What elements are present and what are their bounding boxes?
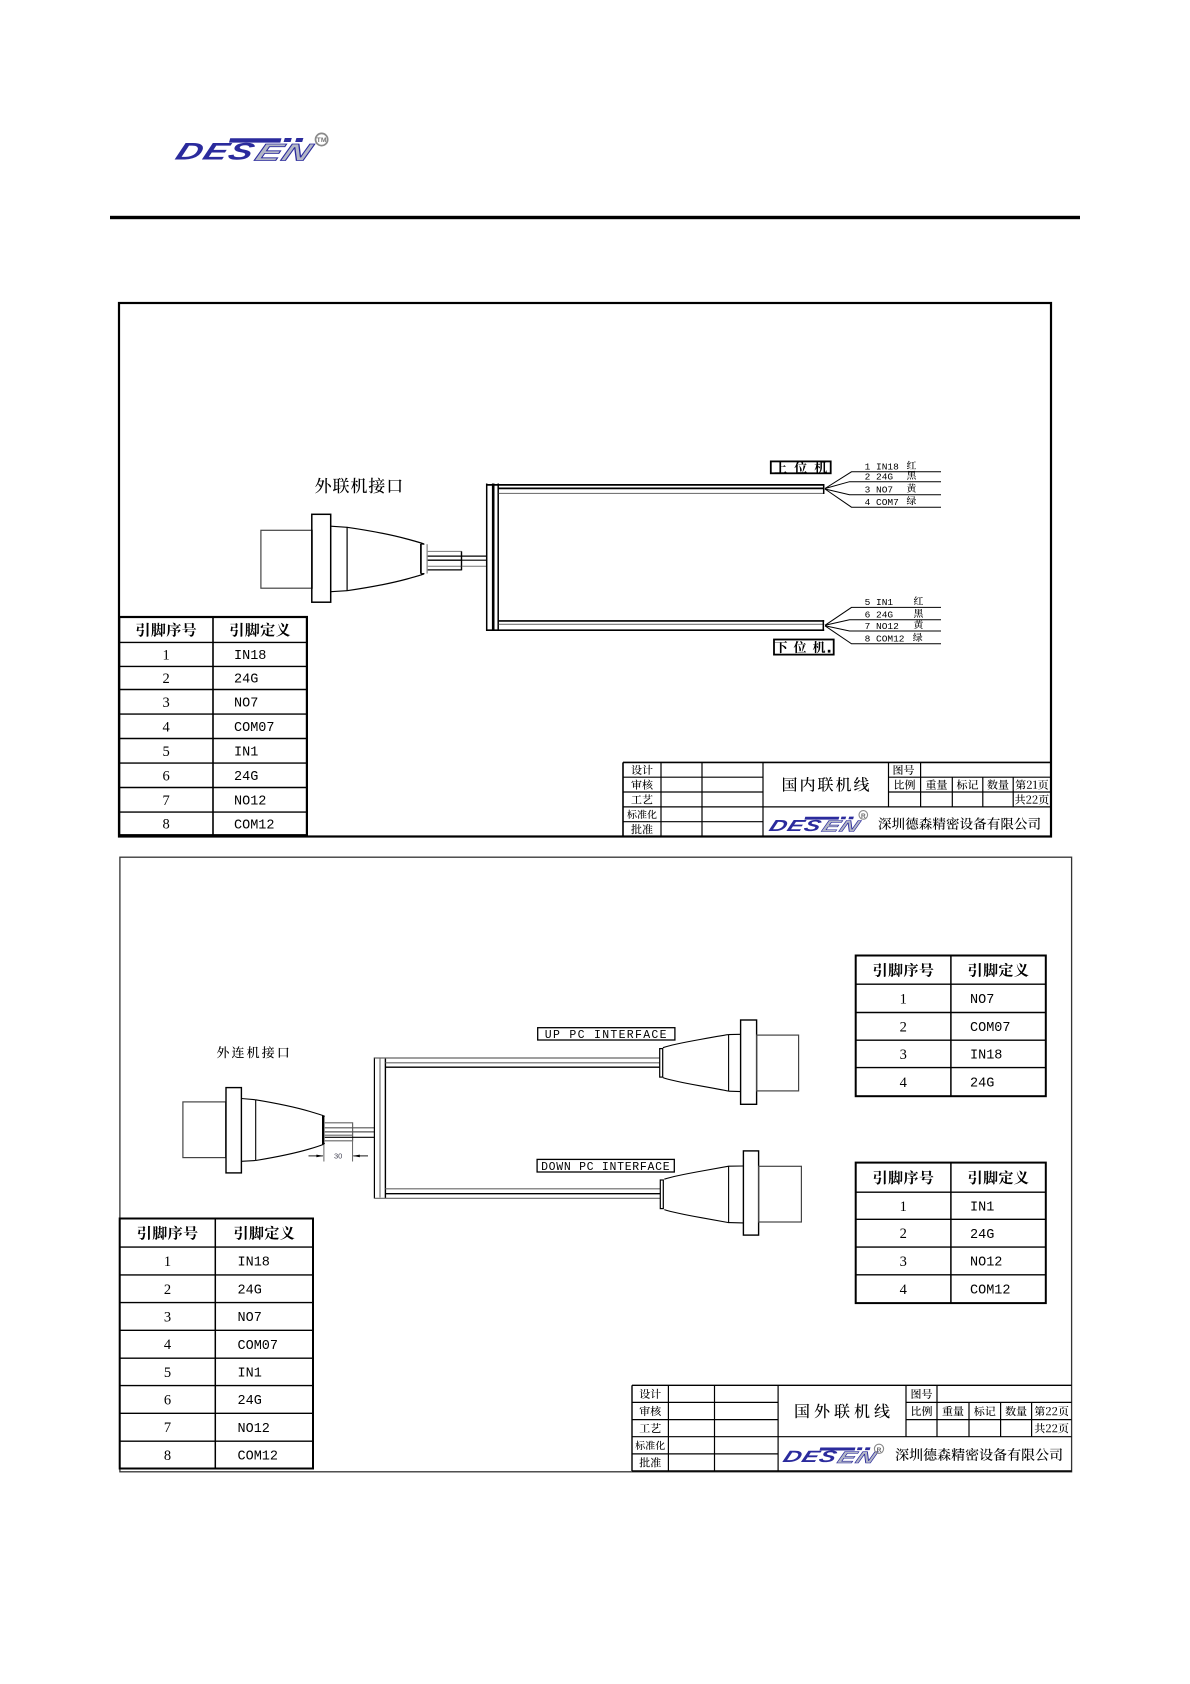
company name 深圳德森精密设备有限公司 — [878, 817, 891, 829]
drawing sheet frame 1 (国内联机线) — [119, 303, 1051, 837]
svg-text:24G: 24G — [234, 770, 258, 785]
connector P1 barrel — [261, 530, 312, 588]
svg-text:5 IN1: 5 IN1 — [865, 597, 894, 608]
fan-out wire 5 IN1 — [825, 607, 941, 625]
wires from P2 to bundle — [325, 1127, 374, 1129]
connector UP barrel — [757, 1035, 799, 1091]
fan-out wire 8 COM12 — [825, 626, 941, 644]
svg-text:3: 3 — [162, 695, 169, 711]
pin definition table frame 2 (8 pins) — [120, 1219, 313, 1469]
svg-text:30: 30 — [334, 1152, 342, 1161]
svg-text:NO12: NO12 — [970, 1256, 1002, 1271]
svg-text:24G: 24G — [238, 1284, 262, 1299]
DESEN company logo (header) — [172, 138, 318, 166]
connector P2 flange — [226, 1088, 241, 1173]
svg-text:7: 7 — [162, 793, 169, 809]
connector P2 cable exit cap — [322, 1116, 324, 1145]
svg-text:COM07: COM07 — [238, 1339, 279, 1354]
connector P1 strain-relief cone — [347, 527, 424, 544]
title block fields — [912, 1389, 921, 1399]
svg-text:1: 1 — [162, 647, 169, 663]
upper cable run — [486, 484, 824, 486]
pin table headers — [873, 963, 886, 977]
fan-out wire 2 24G — [825, 482, 941, 489]
connector UP cap — [660, 1049, 663, 1078]
svg-text:5: 5 — [162, 744, 169, 760]
svg-text:IN1: IN1 — [970, 1201, 994, 1216]
svg-text:NO12: NO12 — [238, 1422, 270, 1437]
svg-text:COM12: COM12 — [970, 1284, 1011, 1299]
svg-text:R: R — [861, 813, 866, 820]
connector P1 cable exit cap — [420, 544, 422, 574]
svg-text:3: 3 — [164, 1309, 171, 1325]
DESEN logo (title block 1) — [767, 817, 865, 836]
fan-out wire 7 NO12 — [825, 626, 941, 631]
cable bundle junction bar 2 — [373, 1058, 375, 1199]
svg-text:4: 4 — [900, 1075, 908, 1091]
label 外联机接口 — [315, 478, 331, 494]
dimension 30 — [323, 1145, 325, 1162]
svg-text:COM12: COM12 — [234, 818, 275, 833]
svg-text:6: 6 — [164, 1392, 171, 1408]
connector P1 body — [331, 526, 347, 527]
svg-text:5: 5 — [164, 1365, 171, 1381]
pin definition table (8 pins) — [119, 617, 307, 835]
svg-text:24G: 24G — [970, 1228, 994, 1243]
wires from P1 to cable bundle — [462, 555, 487, 557]
TM mark (header) — [316, 133, 328, 145]
fan-out wire 4 COM7 — [825, 489, 941, 507]
connector P2 barrel — [183, 1102, 226, 1158]
box label 上位机 — [771, 461, 831, 473]
svg-text:COM07: COM07 — [234, 721, 275, 736]
connector DOWN cone — [664, 1166, 728, 1179]
lower cable run 2 — [385, 1188, 660, 1190]
R mark (title block 2) — [874, 1444, 883, 1453]
fan-out wire 6 24G — [825, 620, 941, 626]
svg-text:NO7: NO7 — [234, 697, 258, 712]
svg-text:4: 4 — [900, 1282, 908, 1298]
pin table headers — [873, 1171, 886, 1185]
exposed wires at P2 — [325, 1122, 353, 1124]
drawing sheet frame 2 (国外联机线) — [120, 857, 1072, 1472]
svg-text:2: 2 — [162, 671, 169, 687]
svg-text:IN18: IN18 — [238, 1256, 270, 1271]
svg-text:2: 2 — [164, 1282, 171, 1298]
svg-text:NO7: NO7 — [970, 993, 994, 1008]
svg-text:NO7: NO7 — [238, 1311, 262, 1326]
svg-text:24G: 24G — [238, 1394, 262, 1409]
connector DOWN cap — [660, 1180, 663, 1209]
svg-text:UP PC INTERFACE: UP PC INTERFACE — [545, 1029, 668, 1042]
svg-text:2: 2 — [900, 1226, 907, 1242]
title block labels — [640, 1389, 650, 1399]
svg-text:IN1: IN1 — [238, 1367, 262, 1382]
svg-text:IN1: IN1 — [234, 746, 258, 761]
lower cable run — [498, 620, 824, 622]
title block labels — [631, 765, 641, 775]
title block (frame 1) — [623, 761, 1051, 763]
title block (frame 2) — [632, 1384, 1072, 1386]
exposed wire bundle at P1 — [428, 550, 462, 552]
pin table UP PC (4 pins) — [856, 956, 1046, 1097]
svg-text:8: 8 — [162, 817, 169, 833]
horizontal rule under header — [110, 216, 1080, 219]
box label UP PC INTERFACE — [538, 1028, 675, 1040]
connector UP cone — [663, 1035, 729, 1048]
connector P2 strain-relief cone — [256, 1100, 325, 1116]
svg-text:3 NO7: 3 NO7 — [865, 485, 894, 496]
svg-text:24G: 24G — [234, 673, 258, 688]
pin table headers — [136, 623, 149, 637]
svg-text:IN18: IN18 — [234, 649, 266, 664]
svg-text:7: 7 — [164, 1420, 171, 1436]
pin table headers — [138, 1226, 151, 1240]
connector P2 body — [241, 1099, 255, 1100]
fan-out wire 3 NO7 — [825, 489, 941, 495]
svg-text:NO12: NO12 — [234, 795, 266, 810]
fan-out wire 1 IN18 — [825, 472, 941, 489]
connector DOWN flange — [743, 1151, 758, 1235]
cable bundle junction bar — [486, 484, 488, 632]
svg-text:COM12: COM12 — [238, 1450, 279, 1465]
company name 深圳德森精密设备有限公司 — [896, 1448, 909, 1461]
svg-text:3: 3 — [900, 1047, 907, 1063]
svg-text:2 24G: 2 24G — [865, 472, 894, 483]
title block fields — [894, 765, 903, 775]
svg-text:4 COM7: 4 COM7 — [865, 497, 899, 508]
connector DOWN barrel — [759, 1166, 802, 1222]
R mark (title block 1) — [859, 811, 868, 820]
pin table DOWN PC (4 pins) — [856, 1163, 1046, 1304]
svg-text:R: R — [877, 1447, 882, 1454]
svg-text:1: 1 — [900, 991, 907, 1007]
svg-text:1: 1 — [164, 1254, 171, 1270]
svg-text:COM07: COM07 — [970, 1021, 1011, 1036]
drawing title 国内联机线 — [783, 777, 797, 792]
svg-text:6 24G: 6 24G — [865, 610, 894, 621]
svg-text:3: 3 — [900, 1254, 907, 1270]
box label DOWN PC INTERFACE — [537, 1159, 674, 1172]
DESEN logo (title block 2) — [780, 1447, 880, 1466]
svg-text:8: 8 — [164, 1448, 171, 1464]
svg-text:2: 2 — [900, 1019, 907, 1035]
upper cable run 2 — [374, 1057, 659, 1059]
svg-text:4: 4 — [164, 1337, 172, 1353]
connector P1 flange — [312, 514, 331, 602]
svg-text:1: 1 — [900, 1199, 907, 1215]
box label 下位机 — [774, 640, 834, 655]
label 外连机接口 — [217, 1046, 229, 1058]
connector UP flange — [741, 1020, 757, 1104]
svg-text:IN18: IN18 — [970, 1049, 1002, 1064]
svg-text:6: 6 — [162, 768, 169, 784]
svg-text:TM: TM — [317, 137, 327, 144]
svg-text:24G: 24G — [970, 1077, 994, 1092]
svg-text:DOWN PC INTERFACE: DOWN PC INTERFACE — [541, 1161, 670, 1174]
svg-text:7 NO12: 7 NO12 — [865, 621, 900, 632]
svg-text:8 COM12: 8 COM12 — [865, 634, 905, 645]
drawing title 国外联机线 — [796, 1404, 810, 1419]
svg-text:4: 4 — [162, 719, 170, 735]
